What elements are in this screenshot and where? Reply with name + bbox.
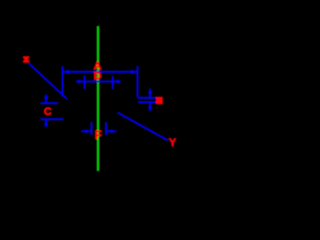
dim A left extension line xyxy=(62,66,64,97)
dim F left arrowhead xyxy=(85,129,90,133)
dim A right extension line xyxy=(137,66,139,98)
dim F right arrowhead xyxy=(107,129,112,133)
svg-text:C: C xyxy=(44,106,52,118)
dim D right tick xyxy=(112,76,114,89)
dim D left arrowhead xyxy=(78,79,83,83)
dim A line xyxy=(63,71,137,73)
dim B top line xyxy=(138,97,156,99)
svg-text:F: F xyxy=(95,128,102,142)
dim C top line xyxy=(41,102,59,104)
dim A right arrowhead xyxy=(131,70,137,74)
dim B bottom arrow tail xyxy=(149,102,151,111)
dim F right arrow tail xyxy=(106,130,117,132)
dim F left tick xyxy=(91,122,93,135)
dim C top arrow tail xyxy=(45,95,47,104)
label B (solid block) xyxy=(156,97,163,104)
dim F right tick xyxy=(105,122,107,135)
dim D line xyxy=(76,81,121,83)
dim B bottom line xyxy=(138,101,156,103)
green axis line xyxy=(97,26,99,171)
dim F left arrow tail xyxy=(81,130,92,132)
dim D right arrowhead xyxy=(114,79,119,83)
dim B top arrowhead xyxy=(148,92,152,97)
leader line Y xyxy=(118,113,169,141)
dim A left arrowhead xyxy=(63,70,69,74)
leader line X xyxy=(29,64,67,100)
dim C bottom line xyxy=(41,118,64,120)
label X xyxy=(23,56,29,63)
dim C bottom arrowhead xyxy=(44,120,48,125)
dim D left tick xyxy=(84,76,86,90)
svg-text:D: D xyxy=(94,71,102,83)
dim C bottom arrow tail xyxy=(45,119,47,127)
svg-text:Y: Y xyxy=(169,137,177,149)
dim C top arrowhead xyxy=(44,97,48,102)
dim B bottom arrowhead xyxy=(148,104,152,109)
dim B top arrow tail xyxy=(149,89,151,98)
